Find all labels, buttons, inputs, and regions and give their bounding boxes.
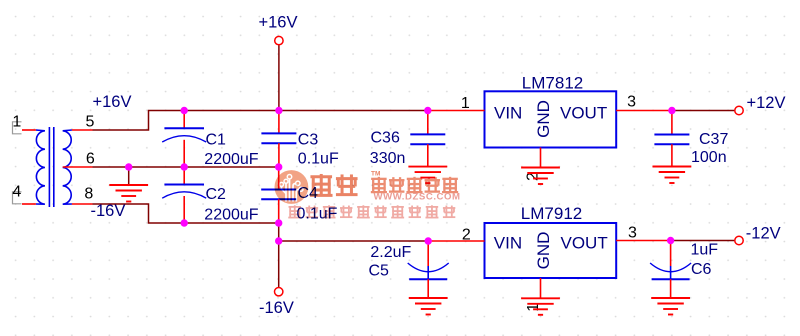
svg-text:C5: C5	[369, 263, 390, 280]
svg-text:3: 3	[628, 225, 637, 242]
wire pin8 to -16V rail	[93, 204, 279, 223]
ground at C6	[651, 298, 690, 315]
svg-text:GND: GND	[534, 100, 553, 138]
C4 body	[261, 190, 296, 200]
center tap gnd stub	[128, 167, 130, 185]
junction (184.2,110.5)	[181, 107, 188, 114]
svg-text:C36: C36	[371, 130, 400, 147]
junction (671.9,110.5)	[668, 107, 675, 114]
C2 body	[162, 185, 206, 199]
C4 pin bottom	[278, 199, 280, 223]
sheet-entry bracket pin 4	[13, 192, 22, 204]
sheet-entry bracket pin 1	[13, 122, 22, 134]
svg-text:8: 8	[84, 186, 93, 203]
wire +16V port drop	[278, 45, 280, 111]
junction (278.7,223)	[275, 219, 282, 226]
svg-text:+16V: +16V	[93, 93, 132, 111]
junction (184.2,223)	[181, 219, 188, 226]
svg-text:2200uF: 2200uF	[204, 151, 258, 168]
svg-text:VIN: VIN	[494, 103, 522, 122]
junction (278.7,167)	[275, 163, 282, 170]
C36 pin bottom	[427, 144, 429, 166]
port +12V	[735, 106, 743, 114]
C4 pin top	[278, 167, 280, 190]
C6 inner lead	[670, 266, 672, 279]
svg-text:5: 5	[86, 114, 95, 131]
U1 gnd pin stub	[540, 148, 542, 168]
svg-text:100n: 100n	[691, 149, 727, 166]
svg-text:VOUT: VOUT	[560, 103, 607, 122]
svg-text:C6: C6	[691, 261, 712, 278]
C37 pin bottom	[671, 144, 673, 166]
ground at U1	[521, 168, 560, 185]
C3 body	[261, 133, 296, 143]
T1 pin 1 stub	[22, 129, 36, 131]
ground at U2	[521, 298, 560, 315]
ground at C37	[653, 167, 692, 184]
C37 body	[654, 135, 689, 145]
center tap ground lines	[109, 185, 148, 202]
C36 body	[410, 134, 445, 144]
port -12V	[735, 236, 743, 244]
port +16V (top)	[275, 36, 283, 44]
T1 pin 5 stub	[72, 129, 93, 131]
svg-text:-16V: -16V	[91, 202, 126, 220]
C2 pin bottom	[183, 196, 185, 223]
svg-text:0.1uF: 0.1uF	[298, 151, 339, 168]
svg-text:3: 3	[627, 94, 636, 111]
junction (184.2,167)	[181, 163, 188, 170]
svg-text:GND: GND	[534, 232, 553, 270]
svg-text:WWW.DZSC.COM: WWW.DZSC.COM	[374, 192, 461, 203]
C5 inner lead	[427, 266, 429, 279]
U2 gnd pin stub	[540, 278, 542, 298]
wire mid rail (0V)	[93, 166, 279, 168]
wire -16V port drop	[278, 223, 280, 287]
U1 pin 1 stub	[429, 110, 485, 112]
C3 pin bottom	[278, 143, 280, 167]
T1 pin 8 stub	[72, 203, 93, 205]
svg-text:2.2uF: 2.2uF	[370, 244, 411, 261]
svg-text:1uF: 1uF	[691, 242, 719, 259]
C6 pin top	[670, 241, 672, 267]
watermark text 电子市场网	[371, 177, 387, 192]
C6 body	[650, 263, 691, 279]
svg-text:LM7812: LM7812	[522, 74, 583, 93]
C5 body	[408, 263, 449, 279]
svg-text:VOUT: VOUT	[561, 233, 608, 252]
svg-text:330n: 330n	[370, 150, 406, 167]
wire U1 out to +12V port	[672, 110, 735, 112]
svg-text:C3: C3	[298, 132, 319, 149]
junction (427.8,110.5)	[424, 107, 431, 114]
junction (670.6,240.5)	[667, 237, 674, 244]
svg-text:-12V: -12V	[746, 225, 781, 243]
junction (428.2,241)	[425, 237, 432, 244]
U2 pin 3 stub	[616, 240, 672, 242]
transformer T1	[36, 127, 72, 207]
C2 pin top	[183, 167, 185, 185]
regulator U1 LM7812	[485, 91, 617, 147]
svg-text:2200uF: 2200uF	[204, 206, 258, 223]
C5 pin top	[427, 241, 429, 266]
junction (278.9,110.5)	[275, 107, 282, 114]
ground at C5	[409, 298, 448, 315]
svg-text:1: 1	[12, 114, 21, 131]
svg-text:2: 2	[462, 227, 471, 244]
C1 body	[162, 128, 206, 142]
svg-text:TM: TM	[371, 171, 380, 178]
watermark text 专业电子元器件交易网站	[288, 205, 301, 217]
T1 pin 4 stub	[22, 203, 36, 205]
junction (128.7,167)	[125, 163, 132, 170]
svg-text:1: 1	[461, 95, 470, 112]
wire U2 out to -12V port	[672, 240, 735, 242]
svg-text:6: 6	[86, 151, 95, 168]
C36 pin top	[427, 111, 429, 135]
C1 pin top	[183, 111, 185, 129]
regulator U2 LM7912	[485, 223, 617, 278]
svg-text:C2: C2	[206, 186, 227, 203]
C37 pin top	[671, 111, 673, 135]
U2 pin 2 stub	[429, 240, 485, 242]
wire pin5 to +16V rail	[93, 111, 430, 131]
svg-text:VIN: VIN	[494, 233, 522, 252]
svg-text:+16V: +16V	[259, 14, 298, 32]
svg-text:-16V: -16V	[259, 299, 294, 317]
svg-text:LM7912: LM7912	[521, 204, 582, 223]
port -16V (bottom)	[275, 288, 283, 296]
C5 pin bottom	[427, 279, 429, 298]
watermark text 维库	[310, 174, 333, 195]
C1 pin bottom	[183, 140, 185, 167]
svg-text:+12V: +12V	[747, 94, 786, 112]
junction (278.7,241)	[275, 237, 282, 244]
C3 pin top	[278, 111, 280, 134]
watermark logo	[275, 170, 309, 204]
svg-text:4: 4	[12, 184, 21, 201]
wire -16V feed to U2	[279, 240, 429, 242]
C6 pin bottom	[670, 279, 672, 298]
svg-text:C1: C1	[206, 132, 227, 149]
U1 pin 3 stub	[616, 110, 672, 112]
ground at C36	[408, 167, 447, 184]
svg-text:C37: C37	[699, 131, 728, 148]
T1 pin 6 stub	[63, 166, 93, 168]
